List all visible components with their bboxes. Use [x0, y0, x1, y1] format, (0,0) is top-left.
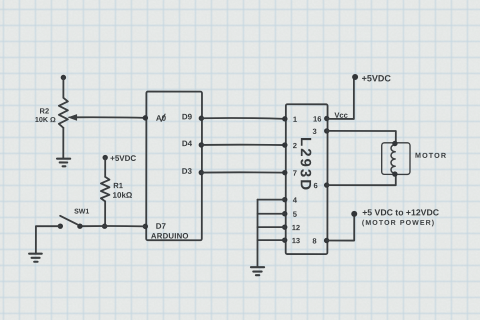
wire R2 wiper arrow to A0 — [76, 116, 145, 119]
pin D9 of arduino — [199, 116, 204, 121]
wire pin 6 to motor bottom — [327, 174, 396, 185]
wire R2 top lead — [62, 77, 64, 97]
pin 5 of L293D — [282, 211, 287, 216]
pin 13 of L293D — [282, 237, 287, 242]
pin 7 of L293D — [282, 170, 287, 175]
pin 8 of L293D — [324, 238, 329, 243]
svg-text:+5 VDC to +12VDC: +5 VDC to +12VDC — [362, 207, 440, 217]
pin 3 of L293D — [324, 128, 329, 133]
pin 1 of L293D — [282, 116, 287, 121]
svg-text:D3: D3 — [182, 167, 193, 176]
potentiometer R2 — [59, 98, 68, 128]
wire R1 to D7 rail — [104, 201, 106, 226]
svg-text:SW1: SW1 — [74, 208, 89, 215]
node motor power net — [351, 211, 357, 217]
svg-text:+5VDC: +5VDC — [362, 73, 392, 83]
wire D4 to pin 2 — [201, 144, 285, 146]
wire pin 3 to motor top — [327, 131, 396, 144]
wire D3 to pin 7 — [201, 171, 285, 173]
pin D3 of arduino — [199, 170, 204, 175]
wire pin 16 to +5VDC — [327, 79, 354, 119]
node R2 top terminal — [61, 75, 66, 80]
svg-text:8: 8 — [312, 236, 316, 245]
svg-text:6: 6 — [313, 181, 317, 190]
pin 16 of L293D — [324, 116, 329, 121]
svg-text:12: 12 — [292, 223, 300, 232]
op-amp driver IC U2 L293D box — [286, 104, 328, 254]
svg-text:ARDUINO: ARDUINO — [151, 231, 189, 240]
wire pin 8 to motor power node — [327, 214, 355, 241]
svg-text:+5VDC: +5VDC — [110, 154, 136, 163]
svg-text:D4: D4 — [182, 139, 193, 148]
pin 2 of L293D — [282, 142, 287, 147]
ground below switch — [29, 254, 42, 262]
junction node R1/D7 rail — [102, 224, 107, 229]
ground below R2 — [57, 159, 70, 167]
arduino U1 box — [146, 92, 202, 241]
motor M1 body — [382, 143, 410, 175]
motor M1 winding coil — [391, 145, 395, 174]
wire ground bus vertical — [256, 200, 258, 267]
pin 12 of L293D — [282, 224, 287, 229]
pin D4 of arduino — [199, 142, 204, 147]
pin 4 of L293D — [282, 197, 287, 202]
pin 6 of L293D — [324, 182, 329, 187]
svg-text:R1: R1 — [113, 181, 123, 190]
svg-text:MOTOR: MOTOR — [415, 151, 447, 160]
node motor bottom terminal — [392, 171, 397, 176]
svg-text:3: 3 — [313, 127, 317, 136]
wires pins 4,5,12,13 to ground bus — [258, 200, 285, 241]
wire R2 bottom lead — [62, 128, 64, 159]
svg-text:D7: D7 — [156, 222, 167, 231]
wire +5VDC to R1 — [104, 158, 106, 177]
pin D7 of arduino — [143, 224, 148, 229]
svg-text:7: 7 — [293, 169, 297, 178]
node +5VDC net (left) — [102, 155, 107, 160]
svg-text:16: 16 — [313, 114, 321, 123]
node motor top terminal — [392, 141, 397, 146]
switch SW1 — [58, 223, 63, 228]
svg-text:13: 13 — [292, 236, 300, 245]
svg-text:L293D: L293D — [297, 137, 314, 192]
svg-text:10K Ω: 10K Ω — [35, 115, 56, 124]
svg-text:D9: D9 — [182, 112, 193, 121]
svg-text:2: 2 — [293, 141, 297, 150]
svg-text:10kΩ: 10kΩ — [113, 191, 133, 200]
ground below IC — [251, 267, 264, 275]
wire D9 to pin 1 — [201, 117, 285, 120]
wire switch to ground — [36, 226, 60, 253]
svg-text:(MOTOR POWER): (MOTOR POWER) — [362, 220, 435, 227]
wire switch to D7 — [82, 225, 145, 227]
pin A0 of arduino — [143, 115, 148, 120]
resistor R1 — [101, 177, 110, 202]
node +5VDC net (right) — [352, 74, 358, 80]
